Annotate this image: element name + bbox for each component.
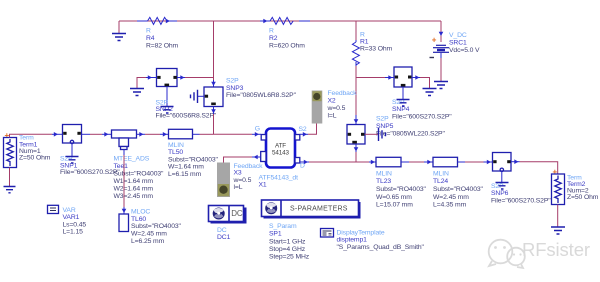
resistor R2 [260, 17, 310, 49]
wire (TL24 to SNP6) [458, 160, 493, 165]
wire (SNP2 right to bus drop) [177, 75, 214, 80]
wire (SNP4 right to ground) [412, 75, 430, 88]
wire (gate line to ATF) [214, 132, 262, 137]
S2P SNP3 [204, 78, 297, 107]
DC source SRC1 [430, 21, 481, 81]
MTEE Tee1 [112, 130, 165, 200]
svg-text:w=0.5: w=0.5 [233, 177, 252, 184]
S2P SNP1 [60, 125, 120, 177]
wire (R1 node to SNP4 left) [356, 75, 394, 80]
wire (SNP6 to Term2) [511, 159, 558, 174]
ground (Term2) [551, 227, 565, 234]
svg-text:MLIN: MLIN [168, 142, 184, 149]
svg-text:R=82 Ohm: R=82 Ohm [146, 43, 179, 50]
wire (TL23 to TL24) [401, 160, 433, 165]
svg-text:L=4.35 mm: L=4.35 mm [433, 202, 467, 209]
svg-text:File="600S270.S2P": File="600S270.S2P" [392, 114, 452, 121]
feedback X2 [312, 90, 357, 124]
wire (bus drop to SNP3) [211, 21, 216, 87]
svg-text:Start=1 GHz: Start=1 GHz [269, 239, 306, 246]
MLIN TL23 [376, 157, 427, 208]
svg-text:X3: X3 [234, 170, 242, 177]
svg-text:TL23: TL23 [376, 178, 391, 185]
S2P SNP2 [156, 69, 217, 120]
MLIN TL50 [145, 129, 219, 178]
wire (S1 to feedback X3) [224, 155, 261, 163]
svg-text:DC: DC [231, 209, 243, 218]
svg-text:Term: Term [19, 135, 34, 142]
wire (top bias bus) [119, 20, 441, 22]
svg-text:W2=1.64 mm: W2=1.64 mm [114, 186, 154, 193]
svg-text:DC1: DC1 [217, 234, 231, 241]
svg-text:Stop=4 GHz: Stop=4 GHz [269, 246, 306, 253]
svg-text:ATF: ATF [275, 143, 286, 150]
svg-text:L=6.15 mm: L=6.15 mm [168, 171, 202, 178]
svg-text:R: R [269, 28, 274, 35]
svg-text:SP1: SP1 [269, 231, 282, 238]
svg-text:MLIN: MLIN [376, 171, 392, 178]
svg-text:S_Param: S_Param [269, 223, 297, 230]
svg-text:DC: DC [217, 227, 227, 234]
svg-text:R: R [360, 32, 365, 39]
svg-text:R1: R1 [360, 39, 369, 46]
svg-text:+: + [432, 36, 437, 45]
svg-text:"S_Params_Quad_dB_Smith": "S_Params_Quad_dB_Smith" [337, 244, 425, 251]
svg-text:Subst="RO4003": Subst="RO4003" [168, 156, 219, 163]
svg-text:File="600S270.S2P": File="600S270.S2P" [60, 169, 120, 176]
svg-text:Vdc=5.0 V: Vdc=5.0 V [449, 47, 480, 54]
ground (SNP3 left, sideways) [191, 90, 205, 103]
S-PARAMETERS controller SP1 [262, 200, 361, 261]
svg-text:W=0.65 mm: W=0.65 mm [376, 194, 412, 201]
svg-text:l=L: l=L [328, 113, 337, 120]
DisplayTemplate disptemp1 [321, 229, 425, 252]
svg-text:TL50: TL50 [168, 149, 183, 156]
MLOC TL60 [119, 209, 182, 246]
svg-text:Feedback: Feedback [328, 90, 358, 97]
wire (S2 to feedback X2) [300, 124, 317, 137]
svg-text:R2: R2 [269, 35, 278, 42]
svg-text:Subst="RO4003": Subst="RO4003" [433, 186, 484, 193]
svg-text:MTEE_ADS: MTEE_ADS [114, 156, 150, 163]
wire (Tee1 to MLOC TL60) [122, 155, 127, 214]
Term1 [4, 131, 63, 186]
resistor R1 [352, 21, 392, 66]
svg-text:File="600S270.S2P": File="600S270.S2P" [491, 198, 551, 205]
S2P SNP5 [347, 116, 445, 145]
ground (Term1) [4, 187, 16, 193]
svg-text:G: G [255, 125, 260, 132]
svg-text:l=L: l=L [234, 184, 243, 191]
svg-text:W=2.45 mm: W=2.45 mm [433, 194, 469, 201]
svg-text:X2: X2 [328, 98, 336, 105]
svg-text:Subst="RO4003": Subst="RO4003" [131, 223, 182, 230]
svg-text:Tee1: Tee1 [114, 163, 129, 170]
DC controller DC1 [209, 206, 247, 242]
svg-text:W=1.64 mm: W=1.64 mm [168, 164, 204, 171]
svg-text:W1=1.64 mm: W1=1.64 mm [114, 178, 154, 185]
ground (SNP6 bottom) [496, 183, 509, 190]
feedback X3 [217, 163, 263, 198]
svg-text:w=0.5: w=0.5 [327, 105, 346, 112]
svg-text:VAR1: VAR1 [63, 214, 80, 221]
svg-text:MLOC: MLOC [131, 209, 150, 216]
S2P SNP6 [491, 153, 551, 205]
ground (SNP1 bottom) [66, 157, 79, 164]
svg-text:Step=25 MHz: Step=25 MHz [269, 254, 310, 261]
svg-text:L=15.07 mm: L=15.07 mm [376, 202, 413, 209]
svg-text:W3=2.45 mm: W3=2.45 mm [114, 193, 154, 200]
svg-text:SNP3: SNP3 [226, 85, 244, 92]
transistor X1 ATF54143 [259, 129, 300, 189]
wire (R1 to SNP5 top) [354, 66, 359, 125]
svg-text:V_DC: V_DC [449, 32, 467, 39]
ground (SNP5 right, sideways) [365, 128, 386, 141]
svg-text:File="0805WL6R8.S2P": File="0805WL6R8.S2P" [226, 92, 297, 99]
Term2 [552, 168, 599, 227]
ground (SRC1) [434, 82, 448, 89]
svg-text:S2P: S2P [226, 78, 239, 85]
svg-text:L=1.15: L=1.15 [63, 229, 84, 236]
svg-text:TL24: TL24 [433, 178, 448, 185]
wire (drain line) [300, 160, 376, 165]
svg-text:disptemp1: disptemp1 [337, 237, 368, 244]
ground (SNP2 left) [130, 89, 144, 96]
svg-text:ATF54143_dt: ATF54143_dt [259, 175, 299, 182]
ground (top-left bus) [112, 21, 126, 41]
svg-text:RFsister: RFsister [522, 239, 590, 260]
svg-text:TL60: TL60 [131, 216, 146, 223]
svg-text:Ls=0.45: Ls=0.45 [63, 221, 87, 228]
svg-text:Subst="RO4003": Subst="RO4003" [376, 186, 427, 193]
svg-text:File="600S6R8.S2P": File="600S6R8.S2P" [156, 113, 217, 120]
svg-text:L=6.25 mm: L=6.25 mm [131, 238, 165, 245]
svg-text:S2: S2 [299, 126, 307, 133]
wire (SNP2 left to ground) [137, 75, 157, 88]
svg-text:VAR: VAR [63, 207, 76, 214]
ground (SNP4 bottom) [397, 100, 410, 107]
wire (SNP1 to Tee1) [82, 132, 112, 137]
svg-text:54143: 54143 [272, 150, 290, 157]
svg-text:Subst="RO4003": Subst="RO4003" [114, 171, 165, 178]
svg-text:R: R [146, 28, 151, 35]
svg-text:R=33 Ohm: R=33 Ohm [360, 46, 393, 53]
svg-text:File="0805WL220.S2P": File="0805WL220.S2P" [376, 131, 445, 138]
svg-text:SNP4: SNP4 [392, 106, 410, 113]
svg-text:Z=50 Ohm: Z=50 Ohm [567, 194, 599, 201]
svg-text:MLIN: MLIN [433, 171, 449, 178]
svg-text:S2P: S2P [376, 116, 389, 123]
wire (SNP5 bottom to drain line) [354, 144, 359, 162]
svg-text:R4: R4 [146, 35, 155, 42]
svg-text:S-PARAMETERS: S-PARAMETERS [290, 206, 348, 213]
svg-text:W=2.45 mm: W=2.45 mm [131, 231, 167, 238]
svg-text:SNP6: SNP6 [491, 190, 509, 197]
S2P SNP4 [392, 67, 452, 121]
wire (SNP3 bottom to gate line) [211, 107, 216, 135]
svg-text:R=620 Ohm: R=620 Ohm [269, 43, 305, 50]
svg-text:X1: X1 [259, 182, 267, 189]
resistor R4 [137, 17, 179, 49]
ground (SNP2 bottom) [161, 107, 174, 114]
watermark [489, 239, 590, 268]
svg-text:DisplayTemplate: DisplayTemplate [337, 230, 385, 237]
VAR VAR1 [48, 205, 87, 235]
MLIN TL24 [433, 157, 484, 208]
svg-text:Z=50 Ohm: Z=50 Ohm [19, 155, 51, 162]
svg-text:SRC1: SRC1 [449, 40, 467, 47]
ground (SNP4 right) [423, 89, 437, 96]
